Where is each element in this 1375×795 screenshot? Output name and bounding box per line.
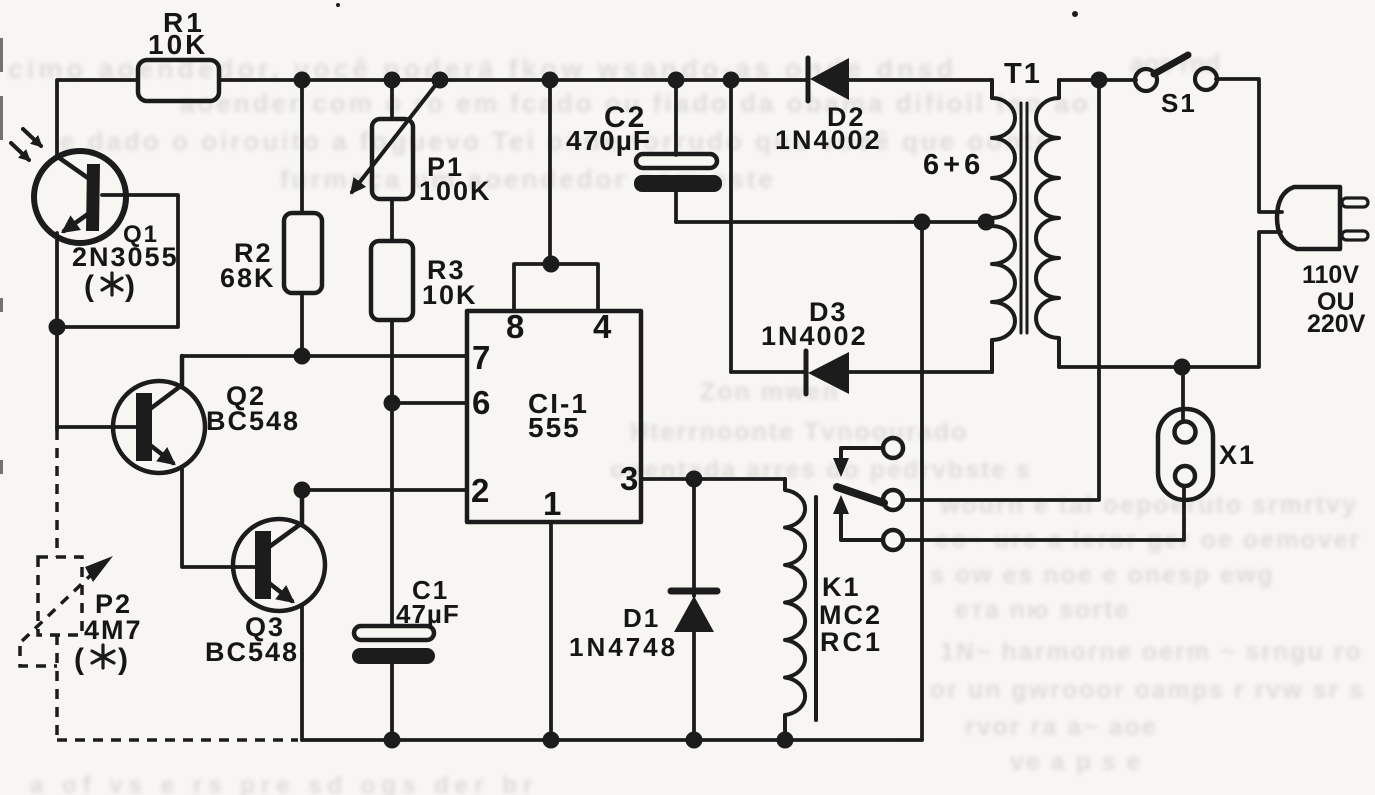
wire 555 supply	[548, 80, 552, 264]
plug prong lower	[1342, 231, 1368, 240]
plug prong upper	[1342, 198, 1368, 207]
relay contact COM	[883, 490, 903, 510]
resistor R1	[138, 60, 219, 101]
svg-text:47µF: 47µF	[396, 599, 460, 629]
socket X1	[1181, 367, 1185, 422]
wire pin 2	[302, 488, 467, 492]
transistor Q1 2N3055 (photo)	[34, 151, 126, 243]
wire plug lower to primary bottom	[1059, 232, 1281, 367]
transistor Q3 BC548	[233, 519, 325, 611]
node pin1 gnd	[543, 732, 560, 749]
svg-text:s ow es noe e onesp ewg: s ow es noe e onesp ewg	[930, 561, 1275, 589]
wire top rail left segment	[57, 80, 138, 156]
wire Q3 emitter down	[300, 606, 304, 740]
switch S1	[1135, 69, 1157, 91]
diode D2 1N4002	[806, 58, 811, 101]
svg-text:3: 3	[620, 460, 638, 497]
wire pin 6	[392, 401, 467, 405]
capacitor C1	[354, 626, 434, 640]
wire COM to S1 junction	[903, 80, 1099, 500]
svg-text:10K: 10K	[148, 29, 208, 60]
svg-text:): )	[125, 270, 135, 303]
svg-text:BC548: BC548	[206, 406, 300, 436]
wire dashed ground return	[57, 738, 298, 742]
wire Q1 base loop box	[57, 195, 178, 327]
Q1 emitter	[64, 214, 88, 231]
plug 110V/220V body	[1277, 187, 1340, 249]
svg-text:2N3055: 2N3055	[72, 242, 179, 272]
node K1 gnd	[777, 732, 794, 749]
relay moving contact	[837, 487, 884, 503]
wire S1 to plug	[1216, 79, 1282, 212]
svg-text:(: (	[74, 643, 84, 676]
svg-text:1: 1	[543, 485, 561, 522]
wire Q2 emitter to Q3 base	[182, 468, 256, 567]
svg-text:(: (	[84, 270, 94, 303]
wire top rail (D2 to T1)	[846, 78, 992, 82]
svg-text:S1: S1	[1161, 88, 1197, 118]
svg-text:6+6: 6+6	[923, 149, 984, 181]
svg-text:RC1: RC1	[820, 627, 883, 657]
svg-text:a of vs e rs pre sd o: a of vs e rs pre sd ogs der br	[30, 772, 538, 795]
Q1 base bar	[86, 164, 100, 231]
svg-text:68K: 68K	[220, 263, 276, 293]
wire D2/D3 branch vertical	[729, 80, 733, 372]
svg-text:555: 555	[528, 412, 581, 443]
node rail P1	[384, 72, 401, 89]
svg-text:K1: K1	[822, 572, 861, 602]
P1 wiper arrow	[352, 82, 438, 192]
wire Q1 emitter down	[55, 233, 59, 430]
node rail R2	[294, 72, 311, 89]
svg-text:100K: 100K	[419, 176, 492, 206]
svg-text:2: 2	[471, 472, 489, 509]
svg-text:rvor ra a~ aoe: rvor ra a~ aoe	[965, 713, 1158, 741]
potentiometer P1	[390, 80, 394, 119]
node rail C2	[668, 72, 685, 89]
svg-text:ve a p s e: ve a p s e	[1010, 748, 1143, 776]
Q3 collector	[269, 490, 302, 547]
svg-text:110V: 110V	[1302, 261, 1359, 289]
Q3 emitter	[269, 583, 292, 601]
Q2 collector	[150, 356, 182, 409]
node D1 gnd	[686, 732, 703, 749]
wire pin 3	[641, 477, 785, 481]
IC U1 CI-1 555	[467, 311, 641, 522]
node gnd branch	[914, 214, 931, 231]
svg-text:1N4002: 1N4002	[761, 321, 868, 351]
svg-text:MC2: MC2	[819, 600, 882, 630]
node X1 branch	[1174, 359, 1191, 376]
wire primary top to S1	[1059, 78, 1136, 82]
transistor Q2 BC548	[113, 381, 205, 473]
svg-text:4M7: 4M7	[84, 615, 143, 645]
node primary top / relay COM	[1091, 72, 1108, 89]
star symbol P2	[92, 645, 114, 668]
wire pin 7	[182, 354, 467, 358]
Q1 light arrow 2	[11, 143, 29, 160]
svg-text:7: 7	[472, 339, 490, 376]
node center tap	[978, 214, 995, 231]
diode D1 1N4748	[692, 479, 696, 596]
svg-text:4: 4	[593, 308, 612, 345]
svg-text:X1: X1	[1219, 440, 1256, 470]
node pin2 / Q3 collector	[294, 482, 311, 499]
diode D3 1N4002	[731, 370, 806, 374]
svg-text:1N4002: 1N4002	[775, 125, 882, 155]
resistor R2	[300, 80, 304, 213]
wire ground rail	[302, 738, 922, 742]
relay contact NO	[883, 530, 903, 550]
Q1 light arrow 1	[23, 129, 41, 146]
svg-text:T1: T1	[1004, 58, 1042, 90]
wire center tap	[676, 220, 992, 224]
relay K1 core bar	[814, 497, 818, 720]
svg-text:6: 6	[472, 384, 490, 421]
svg-text:wourn e tal oepoeruto srmr: wourn e tal oepoeruto srmrtvy	[939, 491, 1358, 519]
node rail P1 wiper	[432, 72, 449, 89]
node rail D3 branch	[723, 72, 740, 89]
node R2 to pin7	[294, 348, 311, 365]
star symbol Q1	[102, 273, 122, 295]
resistor R3	[371, 241, 413, 320]
wire gnd drop	[920, 222, 924, 740]
svg-text:1N~ harmorne oerm ~ srngu r: 1N~ harmorne oerm ~ srngu ro	[940, 638, 1363, 666]
svg-text:1N4748: 1N4748	[569, 632, 678, 662]
node R3/C1 to pin6	[384, 395, 401, 412]
svg-text:D1: D1	[623, 603, 660, 633]
svg-text:ета nю sorte: ета nю sorte	[955, 596, 1130, 624]
svg-text:470µF: 470µF	[566, 125, 651, 156]
svg-text:Hterrnoonte Tvnoourado: Hterrnoonte Tvnoourado	[630, 418, 968, 446]
wire top rail (R1 right to D2)	[219, 78, 808, 82]
transformer T1 core	[1020, 103, 1023, 333]
transformer T1 secondary winding	[992, 80, 1015, 372]
capacitor C2 470uF	[674, 80, 678, 155]
Q2 emitter	[150, 445, 173, 463]
scan speck	[1072, 11, 1078, 17]
potentiometer P2 (dashed, optional)	[55, 430, 59, 557]
transformer T1 primary winding	[1036, 80, 1059, 367]
node rail 555 supply	[542, 72, 559, 89]
node supply tab	[543, 256, 560, 273]
relay contact NC	[883, 438, 903, 458]
node pin3 D1	[686, 471, 703, 488]
node C1 gnd	[384, 732, 401, 749]
svg-text:8: 8	[506, 308, 524, 345]
Q1 collector	[58, 157, 88, 178]
wire NO to X1	[903, 487, 1184, 540]
relay K1 coil	[785, 479, 805, 740]
555 supply tab	[514, 264, 598, 311]
relay armature linkage	[841, 448, 883, 458]
svg-text:BC548: BC548	[205, 637, 299, 667]
svg-text:e dado o oirouito a foguevo Te: e dado o oirouito a foguevo Tei onde for…	[60, 126, 1049, 156]
node Q1 box junction	[49, 319, 66, 336]
P2 wiper arrow	[22, 574, 92, 641]
Q2 base wire	[57, 425, 136, 429]
svg-text:or un gwrooor oamps r rvw: or un gwrooor oamps r rvw sr s	[930, 676, 1365, 704]
P2 wiper return	[20, 646, 57, 666]
svg-text:): )	[118, 643, 128, 676]
wire pin 1 down	[549, 522, 553, 740]
svg-text:10K: 10K	[422, 280, 478, 310]
svg-text:Zon mwen: Zon mwen	[700, 378, 840, 406]
svg-text:220V: 220V	[1307, 310, 1366, 338]
